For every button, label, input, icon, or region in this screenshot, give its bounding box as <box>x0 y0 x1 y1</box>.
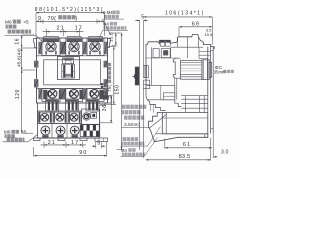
svg-text:2-M4: 2-M4 <box>103 10 113 15</box>
svg-text:): ) <box>75 16 77 22</box>
svg-text:M4: M4 <box>121 148 127 153</box>
svg-text:17: 17 <box>75 26 83 32</box>
svg-text:3.0: 3.0 <box>221 150 229 156</box>
svg-text:15.5: 15.5 <box>204 32 213 37</box>
svg-text:75(: 75( <box>107 84 112 92</box>
svg-text:88(101.5*2)(115*3): 88(101.5*2)(115*3) <box>35 7 104 13</box>
svg-text:106(134*1): 106(134*1) <box>165 10 205 16</box>
svg-text:M4: M4 <box>103 22 109 27</box>
svg-text:126: 126 <box>15 89 21 99</box>
svg-text:83.5: 83.5 <box>179 154 191 160</box>
svg-text:5: 5 <box>97 140 100 146</box>
svg-text:×5: ×5 <box>23 20 29 26</box>
svg-text:36: 36 <box>102 104 108 111</box>
svg-text:15.5: 15.5 <box>108 32 113 42</box>
svg-text:16: 16 <box>14 38 20 45</box>
svg-text:61: 61 <box>183 142 191 148</box>
svg-text:5: 5 <box>141 15 144 21</box>
svg-text:90: 90 <box>79 150 87 156</box>
svg-text:150: 150 <box>114 84 120 94</box>
svg-text:M6: M6 <box>4 130 11 135</box>
svg-text:2.5mm): 2.5mm) <box>124 122 141 128</box>
svg-text:70(: 70( <box>48 16 57 22</box>
svg-text:×5: ×5 <box>21 130 27 135</box>
